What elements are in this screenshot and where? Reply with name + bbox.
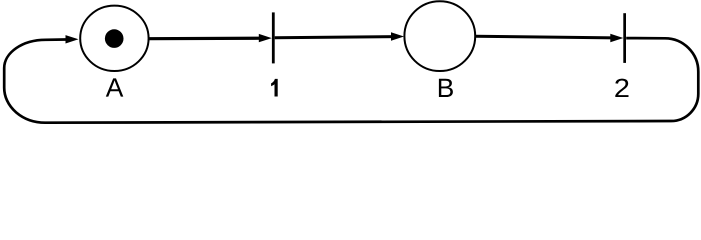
arrowhead into transition 1: [259, 34, 272, 42]
arrowhead into transition 2: [610, 34, 623, 42]
transition 2: [623, 13, 626, 63]
label 2: [615, 79, 628, 97]
place B: [404, 1, 475, 71]
place A: [80, 6, 148, 71]
label A: [106, 78, 124, 96]
arrowhead into place A: [66, 35, 79, 43]
arrowhead into place B: [391, 32, 404, 40]
wire A to transition 1: [148, 37, 263, 41]
wire B to transition 2: [475, 36, 615, 38]
wire transition 1 to B: [275, 37, 396, 38]
feedback wire: transition 2 around to place A: [4, 38, 698, 123]
label 1: [271, 79, 278, 97]
label B: [439, 79, 453, 97]
token in place A: [105, 29, 124, 48]
transition 1: [272, 12, 275, 63]
